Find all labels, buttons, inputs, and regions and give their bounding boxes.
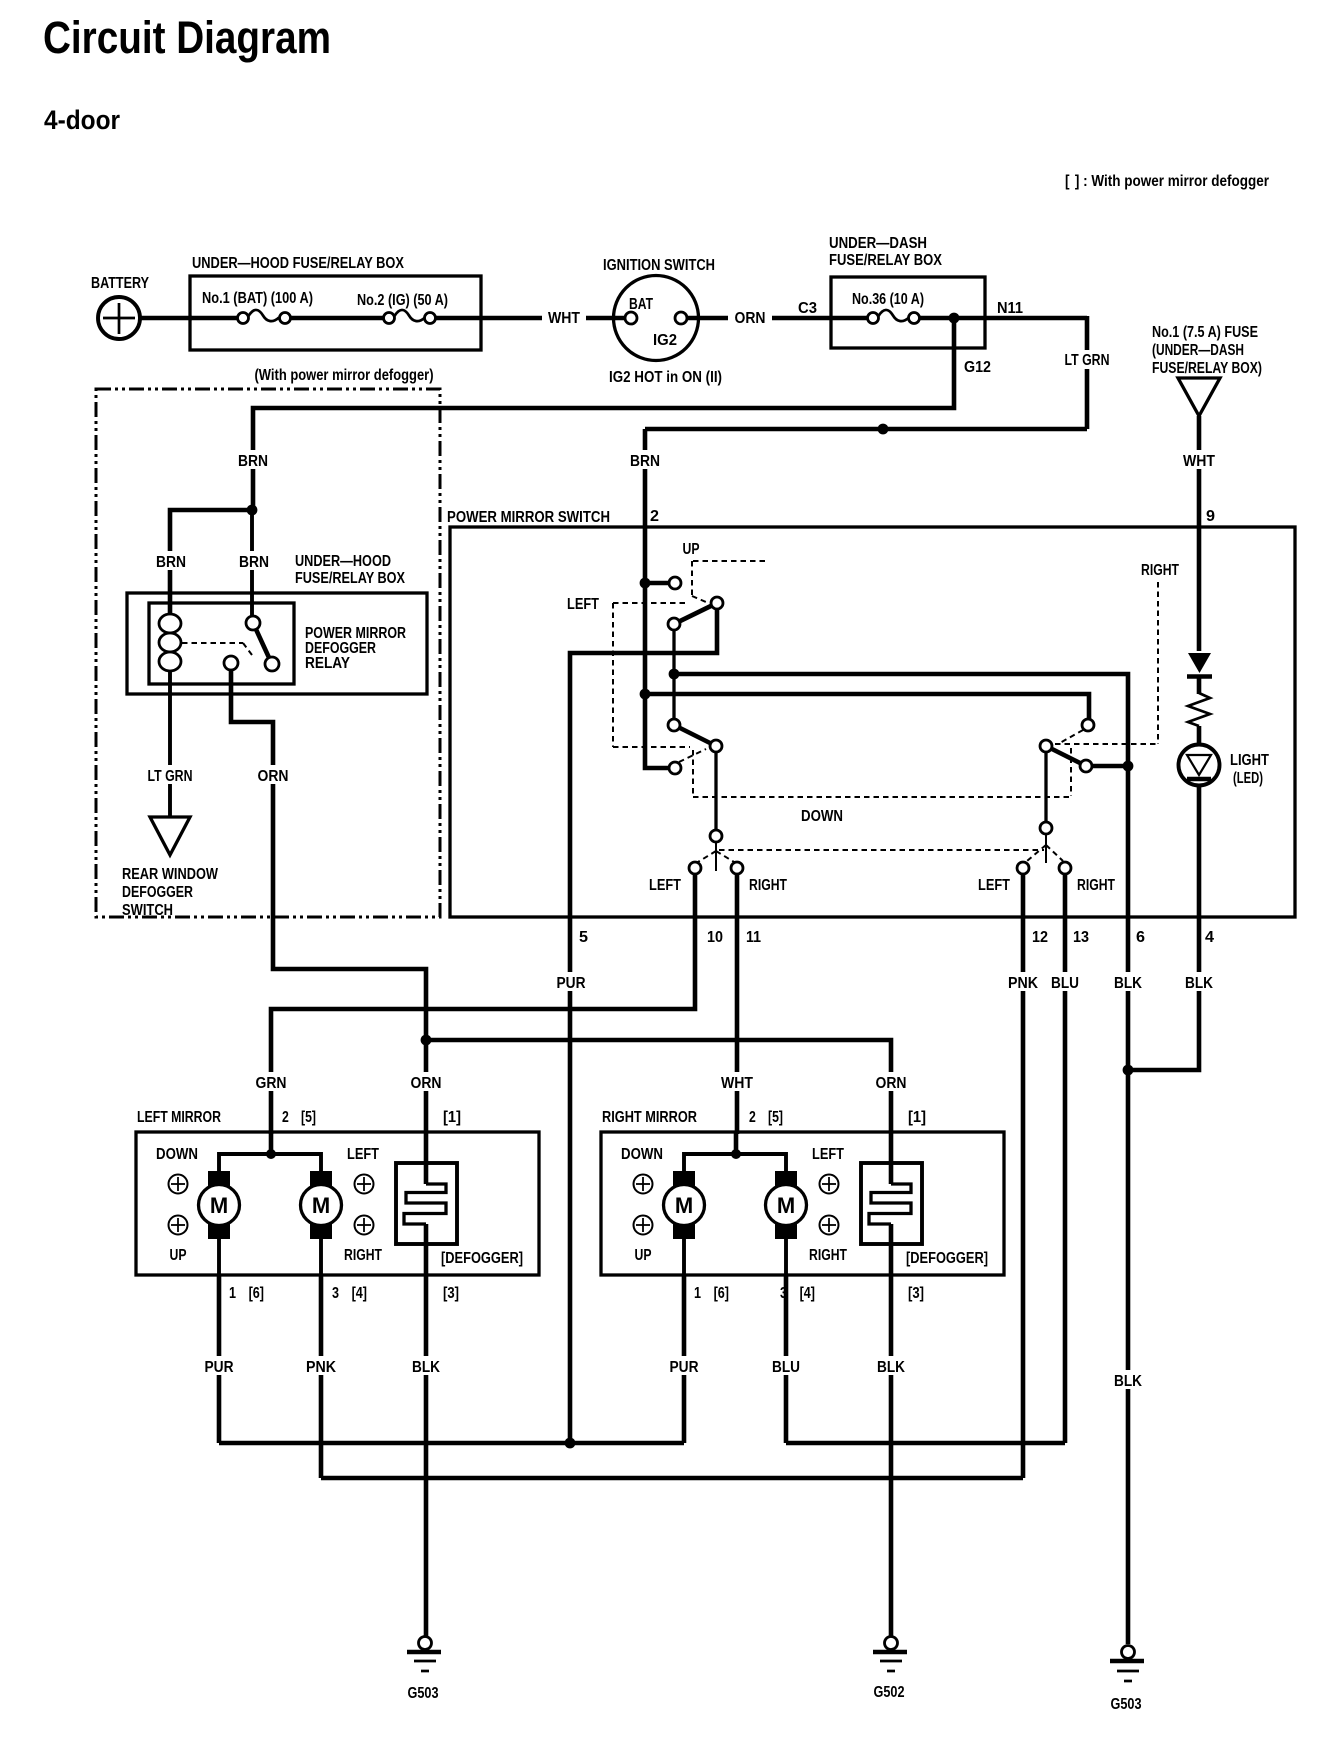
label ORN left mirror [405,1072,448,1091]
mechanical link dashed upper [693,796,1071,798]
wire PUR bus [219,1441,684,1446]
wire BRN horizontal to power mirror switch [645,427,1087,432]
svg-text:M: M [312,1193,330,1218]
svg-text:[1]: [1] [908,1109,926,1126]
fuse No.2 (IG) (50 A) [357,292,448,324]
svg-text:PNK: PNK [306,1359,336,1376]
right mirror assembly [601,1109,1004,1302]
wire PUR right mirror pin1 down [682,1275,687,1443]
svg-text:3 [4]: 3 [4] [332,1285,367,1302]
svg-text:BLK: BLK [412,1359,440,1376]
wire BRN to relay contact [250,510,254,617]
svg-text:LT GRN: LT GRN [1065,352,1110,369]
wire BLK right defogger to ground [889,1275,894,1637]
wire PUR left mirror pin1 down [217,1275,222,1443]
wire stub to UP contact [645,581,668,586]
wire pin10 to GRN left mirror [271,875,695,1134]
wire BLK left defogger to ground [424,1275,429,1637]
contact circles left assembly [669,577,681,589]
label BLU [765,1356,807,1375]
svg-text:ORN: ORN [258,768,289,785]
svg-text:G12: G12 [964,359,991,376]
svg-text:(UNDER—DASH: (UNDER—DASH [1152,342,1244,359]
label PUR pin5 [550,972,591,991]
wire arm to selector right [1044,752,1047,821]
svg-text:M: M [210,1193,228,1218]
mechanical link dashed lower [719,849,1044,851]
wire WHT entry [734,1132,739,1154]
svg-text:13: 13 [1073,929,1089,946]
label PUR [663,1356,704,1375]
svg-text:BLK: BLK [877,1359,905,1376]
fuse No.1 (BAT) (100 A) [190,290,313,324]
under-hood fuse/relay box (top) [190,255,481,350]
selector dashed contacts left [698,851,716,862]
label BRN contact [233,551,275,570]
adjuster symbol up [169,1216,188,1235]
wire pin12 PNK down [1021,875,1026,1478]
junction dot on BLK rail [1123,761,1134,772]
svg-text:BLK: BLK [1185,975,1213,992]
svg-text:ORN: ORN [411,1075,442,1092]
defogger element [861,1134,922,1275]
svg-text:FUSE/RELAY BOX: FUSE/RELAY BOX [829,252,942,269]
svg-text:4-door: 4-door [44,105,120,135]
wire LED to BLK junction [1128,786,1199,1070]
ground G503 right [1110,1646,1144,1714]
svg-text:No.2 (IG) (50 A): No.2 (IG) (50 A) [357,292,448,309]
wire WHT to ignition switch [435,316,625,321]
svg-text:UNDER—DASH: UNDER—DASH [829,235,927,252]
adjuster symbol down [169,1175,188,1194]
adjuster symbol left [355,1175,374,1194]
wire BLU bus [786,1441,1065,1446]
battery B1 [91,275,149,339]
under-hood fuse/relay box (relay) [127,553,427,694]
svg-text:DEFOGGER: DEFOGGER [122,884,193,901]
ignition switch [603,257,722,386]
svg-text:N11: N11 [997,300,1023,317]
svg-text:WHT: WHT [1183,453,1215,470]
svg-text:2: 2 [650,508,659,525]
ground G502 [873,1637,907,1702]
svg-text:PNK: PNK [1008,975,1038,992]
label BLU pin13 [1044,972,1086,991]
wire motor feed rail [219,1154,321,1171]
diode D1 [1188,653,1211,673]
label BLK [405,1356,447,1375]
junction dot pin2 to UP contact [640,578,651,589]
svg-text:M: M [675,1193,693,1218]
wire pin11 WHT to right mirror [735,875,740,1134]
svg-text:LEFT: LEFT [347,1146,379,1163]
left switch pole vertical [672,624,675,725]
svg-text:[DEFOGGER]: [DEFOGGER] [906,1250,988,1267]
label WHT right mirror [714,1072,759,1091]
junction dot to long rail 1 [669,669,680,680]
adjuster symbol up [634,1216,653,1235]
svg-text:ORN: ORN [735,310,766,327]
svg-text:M: M [777,1193,795,1218]
svg-text:BLK: BLK [1114,1373,1142,1390]
svg-text:No.1 (BAT) (100 A): No.1 (BAT) (100 A) [202,290,313,307]
svg-text:PUR: PUR [205,1359,234,1376]
svg-text:SWITCH: SWITCH [122,902,173,919]
wire ORN to left mirror defogger [424,1040,429,1134]
svg-text:10: 10 [707,929,723,946]
svg-text:RELAY: RELAY [305,655,350,672]
left switch arm lower [674,725,716,746]
relay coil [159,614,181,633]
svg-text:11: 11 [746,929,761,946]
svg-text:BRN: BRN [238,453,268,470]
svg-text:1 [6]: 1 [6] [694,1285,729,1302]
svg-text:UNDER—HOOD FUSE/RELAY BOX: UNDER—HOOD FUSE/RELAY BOX [192,255,404,272]
label BLK right rail [1107,1370,1149,1389]
wire fuse1 to fuse2 [290,316,384,321]
svg-text:BRN: BRN [156,554,186,571]
svg-text:1 [6]: 1 [6] [229,1285,264,1302]
wire battery to under-hood box [140,316,192,321]
svg-text:LEFT: LEFT [649,877,681,894]
junction dot BRN split [247,505,258,516]
relay switch arm [254,625,271,662]
selector pole right [1045,834,1047,863]
svg-text:UP: UP [683,541,700,558]
power mirror defogger relay [149,603,406,684]
svg-text:RIGHT: RIGHT [344,1247,382,1264]
wire stub contact to BLK rail [1092,764,1128,769]
wire long rail 1 [674,674,1128,1644]
svg-text:RIGHT: RIGHT [1077,877,1115,894]
svg-text:LEFT: LEFT [567,596,599,613]
svg-text:6: 6 [1136,929,1145,946]
svg-text:[1]: [1] [443,1109,461,1126]
motor M left/right [766,1171,807,1275]
motor M left/right [301,1171,342,1275]
svg-text:FUSE/RELAY BOX): FUSE/RELAY BOX) [1152,360,1262,377]
wire WHT fuse to switch pin 9 [1197,416,1202,651]
svg-text:DOWN: DOWN [801,808,843,825]
right switch dashed linkage [1055,582,1158,796]
label PNK [300,1356,342,1375]
svg-text:G503: G503 [1111,1696,1142,1713]
svg-text:[3]: [3] [908,1285,924,1302]
svg-text:BLK: BLK [1114,975,1142,992]
wire PNK left mirror pin3 down [319,1275,324,1478]
wire LT GRN coil to defogger switch [168,671,172,817]
motor M up/down [664,1171,705,1275]
wire arm to selector [714,752,717,830]
defogger element [396,1134,457,1275]
svg-text:4: 4 [1205,929,1214,946]
node junction G12/N11 [949,313,960,324]
svg-text:PUR: PUR [557,975,586,992]
fuse No.1 7.5A triangle [1152,324,1262,416]
svg-text:RIGHT: RIGHT [749,877,787,894]
svg-text:BRN: BRN [630,453,660,470]
svg-text:FUSE/RELAY BOX: FUSE/RELAY BOX [295,570,405,587]
svg-text:LIGHT: LIGHT [1230,752,1269,769]
left switch arm upper [674,603,717,624]
svg-text:(With power mirror defogger): (With power mirror defogger) [255,367,434,384]
label PUR [198,1356,239,1375]
label BLK pin6 [1107,972,1149,991]
svg-text:IG2: IG2 [653,332,677,349]
wire ORN relay output [231,670,426,1040]
label PNK pin12 [1002,972,1044,991]
motor M up/down [199,1171,240,1275]
svg-text:No.1 (7.5 A) FUSE: No.1 (7.5 A) FUSE [1152,324,1258,341]
svg-text:IGNITION SWITCH: IGNITION SWITCH [603,257,715,274]
svg-text:UP: UP [170,1247,187,1264]
wire long rail 2 [645,694,1089,719]
svg-text:RIGHT: RIGHT [1141,562,1179,579]
svg-text:G503: G503 [408,1685,439,1702]
wire ORN to right mirror defogger [426,1040,891,1134]
svg-text:PUR: PUR [670,1359,699,1376]
svg-text:ORN: ORN [876,1075,907,1092]
svg-text:BLU: BLU [1051,975,1079,992]
adjuster symbol down [634,1175,653,1194]
svg-text:WHT: WHT [548,310,580,327]
svg-text:BLU: BLU [772,1359,800,1376]
wire diode to resistor [1197,677,1202,694]
left switch dashed linkage [613,561,766,797]
svg-text:LEFT: LEFT [812,1146,844,1163]
svg-text:9: 9 [1206,508,1215,525]
svg-text:DOWN: DOWN [621,1146,663,1163]
wire BLU right mirror pin3 down [784,1275,789,1443]
svg-text:LT GRN: LT GRN [148,768,193,785]
svg-text:GRN: GRN [256,1075,287,1092]
selector pole left [715,842,717,871]
contact circles right assembly [1082,719,1094,731]
svg-text:IG2 HOT in ON (II): IG2 HOT in ON (II) [609,369,722,386]
wire BRN to relay coil [170,510,252,614]
svg-text:UP: UP [635,1247,652,1264]
svg-text:LEFT: LEFT [978,877,1010,894]
wire N11 to LT GRN corner [954,316,1087,321]
right switch arm [1046,746,1086,766]
svg-text:RIGHT MIRROR: RIGHT MIRROR [602,1109,697,1126]
junction dot to long rail 2 [640,689,651,700]
svg-text:12: 12 [1032,929,1048,946]
adjuster symbol right [820,1216,839,1235]
svg-text:WHT: WHT [721,1075,753,1092]
wire PNK bus [321,1476,1023,1481]
svg-text:POWER MIRROR SWITCH: POWER MIRROR SWITCH [447,509,610,526]
wire resistor to LED [1197,726,1202,746]
junction dot BLK [1123,1065,1134,1076]
svg-text:BATTERY: BATTERY [91,275,149,292]
wire BRN down to switch pin 2 [643,429,648,585]
adjuster symbol left [820,1175,839,1194]
left mirror assembly [136,1109,539,1302]
svg-text:REAR WINDOW: REAR WINDOW [122,866,219,883]
svg-text:[3]: [3] [443,1285,459,1302]
label ORN right mirror [869,1072,912,1091]
svg-text:DOWN: DOWN [156,1146,198,1163]
svg-text:2 [5]: 2 [5] [282,1109,316,1126]
label BRN coil [150,551,192,570]
svg-text:RIGHT: RIGHT [809,1247,847,1264]
svg-text:Circuit Diagram: Circuit Diagram [43,12,331,63]
svg-text:(LED): (LED) [1233,770,1263,787]
label BLK [870,1356,912,1375]
svg-text:BRN: BRN [239,554,269,571]
svg-text:C3: C3 [798,300,817,317]
wire BRN down to lower stub [645,585,668,768]
svg-text:[DEFOGGER]: [DEFOGGER] [441,1250,523,1267]
svg-text:5: 5 [579,929,588,946]
wire LT GRN vertical [1085,316,1090,429]
wire from common contact down to pin5 rail [570,607,717,1443]
svg-text:[ ] : With power mirror defog: [ ] : With power mirror defogger [1065,173,1269,190]
rear window defogger switch triangle [150,817,190,855]
wire motor feed rail [684,1154,786,1171]
resistor R1 [1188,693,1210,726]
svg-text:BAT: BAT [629,296,653,313]
ground G503 left [407,1637,441,1703]
junction dot ORN split [421,1035,432,1046]
svg-text:UNDER—HOOD: UNDER—HOOD [295,553,391,570]
junction dot motors [731,1149,741,1159]
label BLK pin4 [1178,972,1220,991]
selector dashed contacts right [1027,845,1046,861]
svg-text:2 [5]: 2 [5] [749,1109,783,1126]
fuse No.36 (10 A) [831,291,954,324]
LED light [1179,745,1270,788]
power mirror switch box [447,508,1295,946]
junction dot on BRN wire [878,424,889,435]
wire G12 down-left to BRN [253,318,954,510]
wire pin13 BLU down [1063,875,1068,1443]
relay linkage dashed [182,642,243,644]
under-dash fuse/relay box [829,235,985,348]
wire GRN entry [269,1132,274,1154]
wire ORN ignition to under-dash box [688,316,831,321]
svg-text:G502: G502 [874,1684,905,1701]
adjuster symbol right [355,1216,374,1235]
svg-text:LEFT MIRROR: LEFT MIRROR [137,1109,221,1126]
junction dot motors [266,1149,276,1159]
svg-text:No.36 (10 A): No.36 (10 A) [852,291,924,308]
label GRN [250,1072,292,1091]
junction dot PUR [565,1438,576,1449]
